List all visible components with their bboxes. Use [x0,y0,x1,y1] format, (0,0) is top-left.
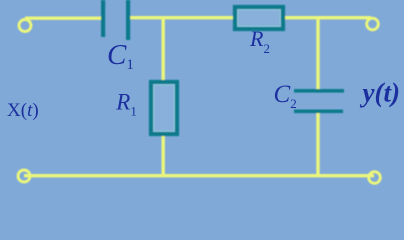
input terminal bottom-left [18,170,30,182]
wire vertical: R1 bottom to bottom rail [162,134,165,177]
wire bottom rail [24,174,374,177]
output terminal bottom-right [369,172,381,184]
resistor R1 body [151,82,177,134]
input terminal top-left [19,20,31,32]
wire vertical: top wire to C2 top plate [316,16,319,90]
wire top-middle: C1 right plate to R2 left edge [128,16,235,19]
capacitor C1 right plate [126,0,130,40]
resistor R2 body [235,7,283,29]
svg-text:y(t): y(t) [360,78,400,108]
capacitor C2 bottom plate [294,110,343,114]
capacitor C2 top plate [294,89,344,93]
svg-text:X(t): X(t) [7,100,39,121]
wire top-right: R2 right edge to output terminal [283,16,371,19]
wire vertical: junction to R1 top [162,16,165,83]
wire vertical: C2 bottom plate to bottom rail [316,112,319,177]
capacitor C1 left plate [101,0,105,37]
output terminal top-right [367,18,379,30]
wire top-left: input terminal to C1 left plate [25,17,103,20]
